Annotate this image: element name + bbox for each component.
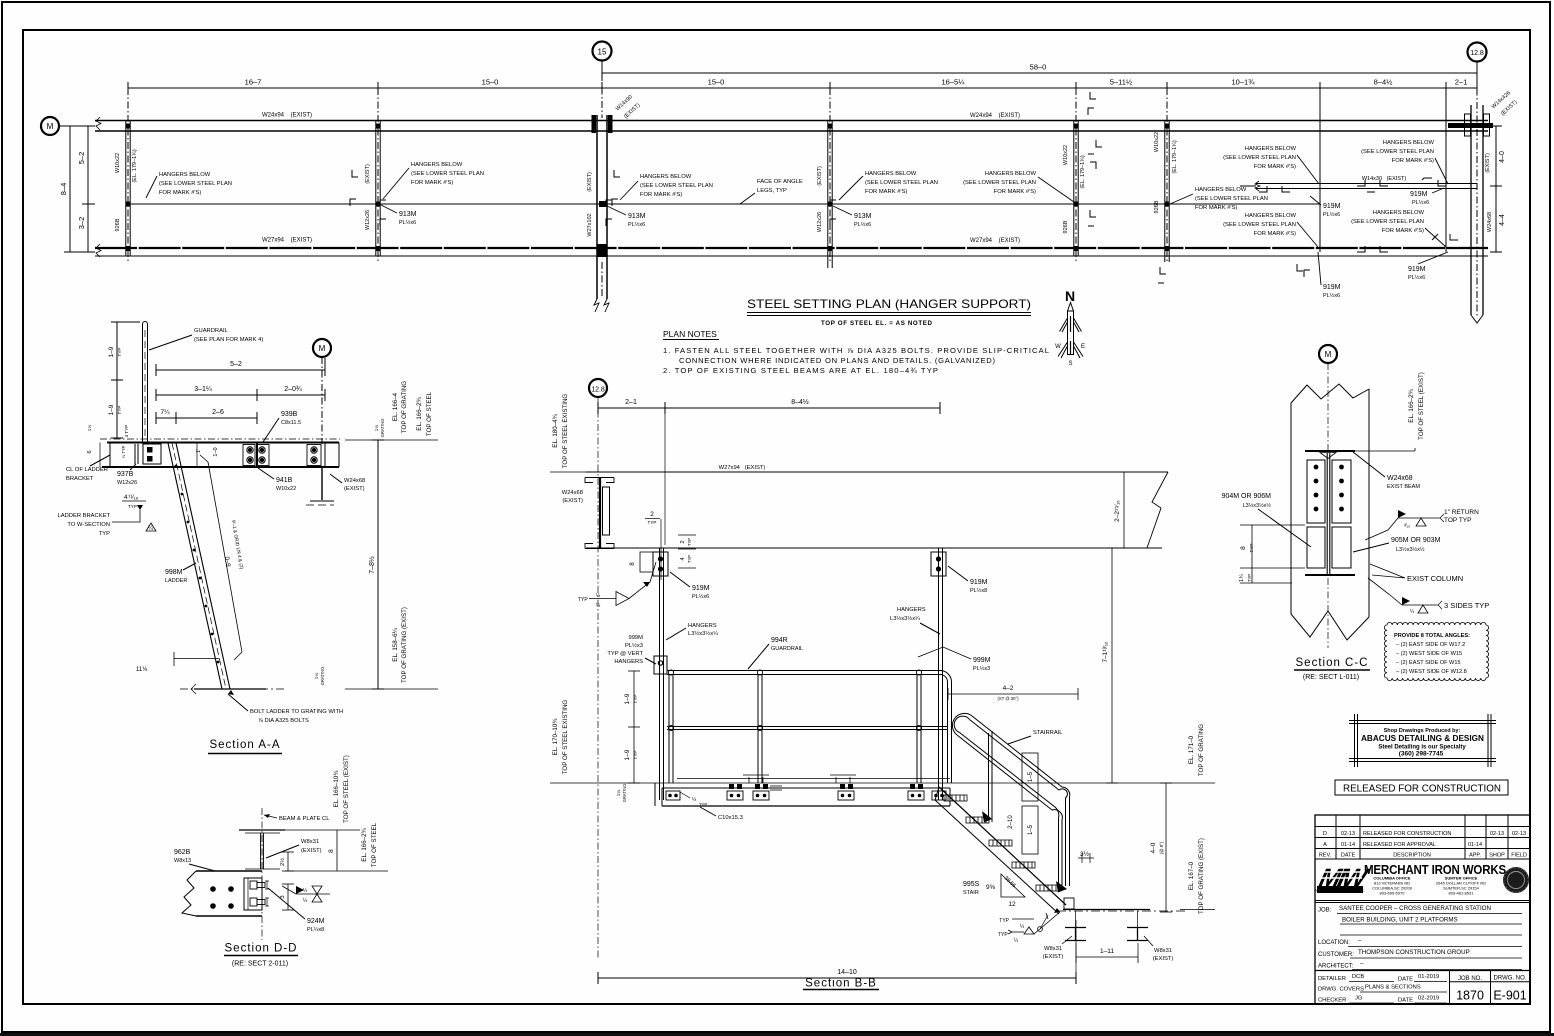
svg-text:5–11½: 5–11½ (1110, 78, 1133, 87)
beam W27x94 bottom (exist) (95, 244, 1488, 257)
platform centerline (100, 438, 340, 440)
svg-text:LEGS, TYP: LEGS, TYP (757, 188, 787, 194)
svg-text:4–0: 4–0 (1150, 842, 1157, 853)
weld TYP left bottom (999, 918, 1034, 930)
svg-text:¼ TYP: ¼ TYP (121, 445, 126, 458)
section B-B title (803, 978, 879, 990)
svg-text:DATE: DATE (1398, 998, 1413, 1004)
hanger note 3 (839, 171, 938, 200)
svg-text:1. FASTEN ALL STEEL TOGETHER W: 1. FASTEN ALL STEEL TOGETHER WITH ⅞ DIA … (663, 346, 1049, 355)
svg-text:(SEE LOWER STEEL PLAN: (SEE LOWER STEEL PLAN (640, 183, 713, 189)
svg-text:02-13: 02-13 (1490, 831, 1504, 837)
svg-text:L3½x3½x½: L3½x3½x½ (1243, 502, 1272, 509)
ladder foot (180, 684, 286, 694)
svg-text:1–9: 1–9 (624, 693, 631, 704)
svg-text:TYP: TYP (633, 695, 638, 704)
grid bubble 15 (593, 42, 612, 61)
dims 1-9 1-9 left (624, 671, 640, 783)
dim 11 1/8 (136, 652, 219, 673)
elevation top right (345, 381, 438, 440)
svg-text:5–2: 5–2 (230, 361, 242, 368)
plan title (747, 297, 1031, 327)
svg-text:TYP: TYP (578, 597, 588, 603)
svg-text:HANGERS BELOW: HANGERS BELOW (640, 174, 692, 180)
splice plate left (1307, 460, 1325, 523)
svg-text:937B: 937B (117, 471, 134, 478)
svg-text:FIELD: FIELD (1511, 853, 1527, 859)
svg-text:5–2: 5–2 (77, 152, 86, 165)
919M right (948, 566, 988, 594)
svg-text:EL. 171–0: EL. 171–0 (1188, 735, 1195, 764)
dim 7 1/4 and 2-6 (156, 409, 257, 424)
svg-text:HANGERS BELOW: HANGERS BELOW (411, 162, 463, 168)
dim 5-2 (156, 358, 325, 376)
svg-text:TOP OF STEEL (EXIST): TOP OF STEEL (EXIST) (1418, 372, 1425, 440)
hangers label right (890, 607, 940, 634)
svg-text:(@ 8°): (@ 8°) (1159, 841, 1164, 854)
EL 167-0 labels (1180, 838, 1215, 914)
svg-text:L3½x3½x½: L3½x3½x½ (1396, 546, 1425, 553)
svg-text:TOP OF STEEL: TOP OF STEEL (426, 391, 433, 436)
svg-text:8–4: 8–4 (59, 183, 68, 196)
svg-text:(EXIST): (EXIST) (1153, 956, 1174, 962)
svg-text:998M: 998M (165, 569, 183, 576)
svg-text:TOP OF STEEL EL. = AS NOTED: TOP OF STEEL EL. = AS NOTED (821, 320, 933, 327)
svg-text:W24x68: W24x68 (344, 478, 365, 484)
svg-text:2. TOP OF EXISTING STEEL BEAMS: 2. TOP OF EXISTING STEEL BEAMS ARE AT EL… (663, 366, 938, 375)
ladder bracket note (57, 505, 156, 537)
W24x68 exist beam label (1353, 452, 1420, 490)
919M label a (1310, 196, 1341, 218)
svg-text:924M: 924M (307, 918, 325, 925)
stair dims rotated (1008, 753, 1038, 854)
grid bubble 12.8 (1468, 43, 1487, 62)
svg-text:–: – (1360, 961, 1364, 968)
904M label (1222, 493, 1311, 547)
svg-text:TOP OF GRATING (EXIST): TOP OF GRATING (EXIST) (401, 607, 408, 683)
svg-text:APP.: APP. (1469, 853, 1481, 859)
W8x31 labels (1043, 936, 1174, 962)
913M label g15 (607, 206, 646, 228)
svg-text:1¼: 1¼ (616, 790, 621, 797)
svg-text:TYP: TYP (633, 751, 638, 760)
svg-text:01-14: 01-14 (1341, 842, 1355, 848)
released for construction stamp (1335, 780, 1508, 795)
4 11/16 dim (122, 494, 146, 509)
svg-text:TYP: TYP (117, 406, 122, 415)
svg-text:PL½x6: PL½x6 (399, 219, 416, 226)
919M label d (1408, 252, 1448, 281)
937B label (117, 464, 137, 486)
plan annotations (146, 92, 1458, 299)
seal (1503, 867, 1529, 893)
svg-text:TOP OF STEEL EXISTING: TOP OF STEEL EXISTING (562, 700, 569, 775)
exist column outline (1291, 384, 1369, 640)
svg-text:4: 4 (680, 557, 686, 560)
svg-text:EL. 180–4¾: EL. 180–4¾ (552, 413, 559, 447)
svg-text:TO W-SECTION: TO W-SECTION (67, 522, 110, 528)
stair bottom dims (963, 850, 1094, 908)
svg-text:PL½x8: PL½x8 (970, 587, 987, 594)
svg-text:02-13: 02-13 (1341, 831, 1355, 837)
svg-text:3: 3 (280, 895, 286, 898)
svg-text:W27x94 (EXIST): W27x94 (EXIST) (262, 238, 312, 244)
svg-text:2–2¹⁵⁄₁₆: 2–2¹⁵⁄₁₆ (1114, 500, 1121, 522)
top plate right (931, 552, 946, 576)
svg-text:1¼: 1¼ (87, 425, 92, 432)
svg-text:926B: 926B (1063, 220, 1069, 233)
svg-text:DESCRIPTION: DESCRIPTION (1393, 853, 1431, 859)
svg-text:(SEE LOWER STEEL PLAN: (SEE LOWER STEEL PLAN (411, 171, 484, 177)
dim 1-9 posts (108, 322, 140, 438)
svg-text:W10x22: W10x22 (1063, 145, 1069, 165)
dim 3-1 1/4 and 2-0 3/4 (156, 386, 325, 401)
svg-text:TYP: TYP (1247, 574, 1252, 582)
svg-text:4–4: 4–4 (1499, 214, 1506, 226)
guardrail label (149, 328, 263, 350)
svg-text:FOR MARK #'S): FOR MARK #'S) (411, 180, 453, 186)
svg-text:PL½x6: PL½x6 (628, 221, 645, 228)
guardrail 994R (667, 670, 952, 783)
platform beam 941B (100, 443, 339, 468)
svg-text:DATE: DATE (1341, 853, 1356, 859)
svg-text:TYP: TYP (117, 348, 122, 357)
svg-text:PL½x3: PL½x3 (625, 642, 643, 649)
dim 58-0 (602, 63, 1477, 81)
svg-text:01-2019: 01-2019 (1418, 974, 1439, 980)
svg-text:⅞ DIA A325 BOLTS: ⅞ DIA A325 BOLTS (258, 718, 309, 724)
svg-text:TYP: TYP (998, 932, 1008, 938)
svg-text:(EXIST): (EXIST) (817, 166, 823, 186)
svg-text:58–0: 58–0 (1030, 63, 1047, 72)
svg-text:TOP OF STEEL: TOP OF STEEL (371, 822, 378, 867)
svg-text:– (2) EAST SIDE OF W17.2: – (2) EAST SIDE OF W17.2 (1396, 642, 1465, 648)
column W14x90 at grid 15 (587, 94, 642, 312)
L symbols plan (350, 92, 1458, 283)
svg-text:BOILER BUILDING, UNIT 2 PLATFO: BOILER BUILDING, UNIT 2 PLATFORMS (1342, 917, 1458, 924)
svg-text:4 TYP: 4 TYP (124, 425, 129, 438)
svg-text:PL½x6: PL½x6 (1323, 211, 1340, 218)
svg-text:1¾: 1¾ (1239, 574, 1245, 582)
svg-text:FOR MARK #'S): FOR MARK #'S) (1254, 164, 1296, 170)
dim 7-8 1/2 right (368, 440, 384, 689)
column at grid6 (1154, 120, 1178, 262)
2 TYP / 4 TYP dims right of plate (678, 535, 696, 568)
svg-text:FOR MARK #'S): FOR MARK #'S) (865, 189, 907, 195)
svg-text:1–9: 1–9 (108, 346, 115, 357)
hanger rod right (939, 548, 943, 800)
svg-text:1" RETURN: 1" RETURN (1444, 509, 1479, 516)
column at grid5 (1063, 120, 1086, 256)
svg-text:994R: 994R (771, 637, 788, 644)
svg-text:(SEE LOWER STEEL PLAN: (SEE LOWER STEEL PLAN (1351, 219, 1424, 225)
svg-text:(EL. 179–1¼): (EL. 179–1¼) (1080, 155, 1086, 188)
gridline 1 (127, 88, 129, 262)
hanger rod left (660, 548, 664, 800)
svg-text:999M: 999M (628, 635, 643, 641)
beam plate CL note (264, 814, 330, 822)
svg-text:12.8: 12.8 (591, 387, 605, 394)
svg-text:DCB: DCB (1352, 974, 1364, 980)
svg-text:TOP OF GRATING (EXIST): TOP OF GRATING (EXIST) (1198, 838, 1205, 914)
splice plate right (1332, 460, 1351, 523)
revision rows (1319, 831, 1527, 859)
svg-text:W12x26: W12x26 (817, 212, 823, 232)
svg-text:LOCATION:: LOCATION: (1318, 940, 1350, 946)
svg-text:A: A (1323, 842, 1327, 848)
svg-text:M: M (47, 122, 54, 131)
svg-text:GRATING: GRATING (380, 419, 385, 438)
svg-text:12.8: 12.8 (1470, 50, 1484, 57)
angle bracket (244, 878, 262, 910)
svg-text:919M: 919M (1323, 284, 1341, 291)
section A-A title (208, 739, 282, 754)
svg-text:926B: 926B (1154, 200, 1160, 213)
svg-text:EL. 166–2¾: EL. 166–2¾ (361, 827, 368, 861)
913M label g2 (381, 205, 417, 226)
svg-text:EL. 166–10¾: EL. 166–10¾ (333, 770, 340, 808)
svg-text:HANGERS BELOW: HANGERS BELOW (159, 172, 211, 178)
hanger note 1 (146, 172, 232, 198)
svg-text:1–0: 1–0 (213, 447, 219, 456)
svg-text:(360) 298-7745: (360) 298-7745 (1399, 751, 1444, 758)
svg-text:11⅛: 11⅛ (136, 667, 148, 673)
dim 8 (328, 830, 337, 871)
svg-text:FOR MARK #'S): FOR MARK #'S) (1392, 158, 1434, 164)
W24x68 exist column (306, 467, 365, 505)
svg-text:904M OR 906M: 904M OR 906M (1222, 493, 1272, 500)
weld symbol 1 (1365, 509, 1479, 540)
svg-text:8: 8 (328, 849, 335, 853)
beam top flange (1305, 451, 1355, 459)
svg-text:W8x31: W8x31 (1154, 948, 1172, 954)
svg-text:TOP OF GRATING: TOP OF GRATING (401, 381, 408, 433)
svg-text:919M: 919M (1323, 203, 1341, 210)
svg-text:2: 2 (680, 540, 686, 543)
svg-text:10–1¾: 10–1¾ (1232, 78, 1256, 87)
stair treads (944, 795, 1059, 891)
hanger note 5 (1170, 187, 1268, 211)
svg-text:TOP OF GRATING: TOP OF GRATING (1198, 724, 1205, 776)
svg-text:FOR MARK #'S): FOR MARK #'S) (1195, 205, 1237, 211)
C10 label (700, 807, 743, 821)
svg-text:BRACKET: BRACKET (66, 476, 94, 482)
svg-text:C10x15.3: C10x15.3 (718, 815, 743, 821)
svg-text:W: W (1055, 344, 1061, 350)
svg-text:HANGERS: HANGERS (897, 607, 926, 613)
bolt ladder note (228, 690, 343, 724)
dim 1 3/4 TYP (1239, 568, 1292, 583)
svg-text:913M: 913M (854, 213, 872, 220)
gridline 5 (1075, 88, 1077, 262)
svg-text:995S: 995S (963, 881, 980, 888)
svg-text:2–10: 2–10 (1008, 815, 1014, 829)
svg-text:EL. 158–6¼: EL. 158–6¼ (392, 627, 399, 661)
ladder (168, 443, 230, 689)
svg-text:01-14: 01-14 (1468, 842, 1482, 848)
weld sym left (578, 562, 656, 609)
svg-text:PL½x3: PL½x3 (973, 665, 990, 672)
column web splice line (1327, 453, 1330, 575)
913M label g4 (833, 206, 872, 228)
rail plate left (654, 656, 667, 674)
svg-text:(ST @ 30°): (ST @ 30°) (998, 696, 1020, 701)
right dims 4-0 / 4-4 (1485, 126, 1506, 252)
W24x68 column end view (562, 478, 614, 549)
svg-text:803-695-5970: 803-695-5970 (1380, 891, 1406, 896)
svg-text:(EXIST): (EXIST) (1043, 954, 1064, 960)
svg-text:(RE: SECT L-011): (RE: SECT L-011) (1303, 674, 1359, 681)
svg-text:913M: 913M (399, 211, 417, 218)
svg-text:02-2019: 02-2019 (1418, 996, 1439, 1002)
svg-text:W24x68: W24x68 (1387, 475, 1413, 482)
top plate left (630, 552, 668, 576)
svg-text:PL¼x8: PL¼x8 (307, 927, 324, 933)
face of angle note (740, 179, 803, 204)
exist column label (1370, 564, 1463, 583)
svg-text:HANGERS BELOW: HANGERS BELOW (1245, 146, 1297, 152)
svg-text:803-481-8531: 803-481-8531 (1449, 891, 1475, 896)
svg-text:STAIR: STAIR (963, 890, 979, 896)
svg-text:THOMPSON CONSTRUCTION GROUP: THOMPSON CONSTRUCTION GROUP (1358, 949, 1470, 956)
svg-text:6: 6 (87, 450, 93, 453)
svg-text:Section B-B: Section B-B (805, 978, 877, 990)
svg-text:4 ¹¹⁄₁₆: 4 ¹¹⁄₁₆ (124, 494, 139, 501)
EL 166-2 3/4 labels (1355, 372, 1425, 451)
stair stringer (935, 787, 1066, 914)
svg-text:W24x94 (EXIST): W24x94 (EXIST) (262, 113, 312, 119)
svg-text:905M OR 903M: 905M OR 903M (1391, 537, 1441, 544)
svg-text:939B: 939B (281, 411, 298, 418)
svg-text:919M: 919M (692, 585, 710, 592)
beam W24x94 top (exist) (95, 117, 1488, 131)
svg-text:FOR MARK #'S): FOR MARK #'S) (994, 189, 1036, 195)
svg-text:STEEL SETTING PLAN (HANGER SUP: STEEL SETTING PLAN (HANGER SUPPORT) (747, 297, 1031, 311)
svg-text:W27x94 (EXIST): W27x94 (EXIST) (970, 238, 1020, 244)
svg-text:FOR MARK #'S): FOR MARK #'S) (1382, 228, 1424, 234)
919M label b (1410, 188, 1444, 206)
svg-text:9⅝: 9⅝ (986, 884, 996, 891)
svg-text:2: 2 (650, 511, 654, 518)
svg-text:– (2) WEST SIDE OF W15: – (2) WEST SIDE OF W15 (1396, 651, 1462, 657)
svg-text:SANTEE COOPER – CROSS GENERATI: SANTEE COOPER – CROSS GENERATING STATION (1339, 905, 1491, 912)
svg-text:1–9: 1–9 (108, 404, 115, 415)
svg-text:L3½x3½x¼: L3½x3½x¼ (688, 630, 718, 637)
svg-text:8: 8 (1240, 546, 1247, 550)
svg-text:2–1: 2–1 (625, 399, 637, 406)
svg-text:(SEE PLAN FOR MARK 4): (SEE PLAN FOR MARK 4) (194, 337, 263, 343)
svg-text:2–6: 2–6 (212, 409, 224, 416)
svg-text:4–2: 4–2 (1003, 685, 1014, 692)
hangers label left (666, 623, 718, 640)
svg-text:W24x68: W24x68 (1487, 212, 1493, 232)
svg-text:JOB:: JOB: (1318, 908, 1332, 914)
svg-text:W10x22: W10x22 (115, 153, 121, 173)
svg-text:1': 1' (196, 449, 202, 453)
floor reference line (550, 782, 1215, 784)
svg-text:LADDER BRACKET: LADDER BRACKET (57, 513, 110, 519)
svg-text:2½: 2½ (279, 858, 286, 866)
angle right (1332, 527, 1351, 568)
stair rail loop (952, 713, 1069, 892)
svg-text:W8x13: W8x13 (174, 858, 191, 864)
994R label (748, 637, 803, 669)
svg-text:TYP: TYP (999, 918, 1009, 924)
svg-text:1–9: 1–9 (624, 749, 631, 760)
svg-text:(EXIST): (EXIST) (1485, 153, 1491, 173)
svg-text:W27x102: W27x102 (587, 213, 593, 236)
svg-text:W12x26: W12x26 (117, 480, 137, 486)
svg-text:941B: 941B (276, 477, 293, 484)
bracket at left (87, 425, 219, 464)
svg-text:(EXIST): (EXIST) (301, 848, 322, 854)
svg-text:ARCHITECT:: ARCHITECT: (1318, 964, 1354, 970)
dim 2.5 and 3 (279, 852, 294, 910)
beam W14x30 (exist) right (1240, 176, 1477, 191)
svg-text:14–10: 14–10 (837, 969, 857, 976)
floor bolt clusters (666, 775, 946, 800)
hanger note 9 (1223, 213, 1318, 247)
svg-text:EL. 170–10¾: EL. 170–10¾ (552, 718, 559, 756)
svg-text:999M: 999M (973, 657, 991, 664)
svg-text:N: N (1065, 288, 1075, 304)
svg-text:REV.: REV. (1319, 853, 1332, 859)
column at grid4 (817, 120, 833, 268)
svg-text:PL½x6: PL½x6 (1323, 292, 1340, 299)
svg-text:16–7: 16–7 (245, 78, 262, 87)
hanger note 8 (1351, 210, 1446, 247)
svg-text:CUSTOMER:: CUSTOMER: (1318, 952, 1354, 958)
EL 166-10 3/4 (285, 755, 360, 830)
svg-text:DATE: DATE (1398, 977, 1413, 983)
STAIRRAIL label (1008, 730, 1063, 744)
svg-text:FOR MARK #'S): FOR MARK #'S) (159, 190, 201, 196)
svg-text:DRWG. COVERS: DRWG. COVERS (1318, 987, 1364, 993)
svg-text:(SEE LOWER STEEL PLAN: (SEE LOWER STEEL PLAN (963, 180, 1036, 186)
svg-text:L3½x3½x¼: L3½x3½x¼ (890, 615, 920, 622)
svg-text:Section C-C: Section C-C (1296, 657, 1369, 669)
svg-text:DRWG. NO.: DRWG. NO. (1494, 976, 1527, 982)
1-11 dim (1076, 943, 1138, 963)
svg-text:962B: 962B (174, 849, 191, 856)
2-2 15/16 dim (1114, 472, 1130, 548)
angle left (1307, 527, 1325, 568)
svg-text:CHECKER: CHECKER (1318, 998, 1346, 1004)
svg-text:3 SIDES TYP: 3 SIDES TYP (1444, 601, 1489, 610)
bolts group mid (243, 445, 269, 466)
svg-text:7–8½: 7–8½ (368, 556, 376, 574)
svg-text:EL. 166–2¾: EL. 166–2¾ (1408, 388, 1415, 422)
svg-text:8–4½: 8–4½ (1374, 78, 1394, 87)
EL 166-2 3/4 (285, 822, 388, 871)
svg-text:12: 12 (1008, 901, 1016, 908)
MIW logo (1315, 864, 1372, 893)
weld symbol (282, 886, 330, 904)
column at grid2 (365, 120, 381, 256)
grid bubble M (313, 339, 331, 444)
svg-text:(EXIST): (EXIST) (344, 486, 365, 492)
dim 8 TYP (1240, 525, 1305, 568)
provide angles note box (1384, 622, 1488, 680)
hanger line g9 (1445, 88, 1447, 252)
svg-text:W10x22: W10x22 (276, 486, 296, 492)
svg-text:(EL. 179–1¼): (EL. 179–1¼) (132, 149, 138, 182)
svg-text:TOP OF STEEL (EXIST): TOP OF STEEL (EXIST) (343, 755, 350, 823)
ladder slope dim line (200, 455, 244, 660)
guardrail post (143, 322, 148, 444)
svg-text:926B: 926B (115, 218, 121, 231)
svg-text:–: – (1358, 937, 1362, 944)
